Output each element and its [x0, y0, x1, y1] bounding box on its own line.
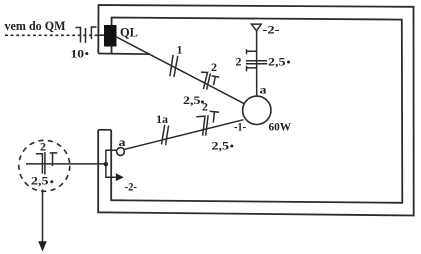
- svg-text:2,5: 2,5: [183, 93, 201, 107]
- lamp 60W: [243, 96, 271, 124]
- conductor ticks group on vertical wire (2x return, phase, neutral): [246, 49, 267, 71]
- svg-text:vem do QM: vem do QM: [5, 19, 66, 33]
- svg-text:2: 2: [40, 140, 46, 154]
- conduit junction to switch: [106, 150, 117, 164]
- svg-text:2: 2: [236, 55, 242, 69]
- wall end cap at QL side (extends to circuit line): [98, 53, 150, 56]
- arrow wire down to other circuit: [42, 190, 44, 244]
- wire feed dashed from QM: [5, 34, 97, 36]
- switch a: [117, 148, 125, 156]
- svg-text:-2-: -2-: [263, 23, 280, 37]
- svg-text:1a: 1a: [156, 112, 168, 126]
- svg-text:a: a: [119, 135, 126, 149]
- svg-text:-2-: -2-: [125, 180, 138, 194]
- wire lamp to sconce point (vertical): [256, 31, 258, 96]
- svg-text:2,5: 2,5: [212, 139, 230, 153]
- svg-text:2: 2: [211, 60, 217, 74]
- wire feed from external point: [26, 163, 106, 165]
- sconce outlet triangle: [251, 24, 261, 31]
- feed stub into QL: [97, 34, 105, 36]
- wall end cap lower door side: [98, 129, 111, 131]
- wall inner: [111, 18, 402, 203]
- svg-text:2,5: 2,5: [31, 174, 49, 188]
- wall outer: [98, 5, 414, 216]
- conduit junction to circuit 2 arrow: [106, 164, 116, 177]
- conductor ticks group 2 lower (neutral, phase, return): [196, 111, 219, 135]
- conductor ticks group 1a (two slashes): [162, 125, 169, 146]
- conductor ticks group in dashed circle (neutral, phase, return): [36, 152, 58, 174]
- conductor ticks group 1 (two slashes): [170, 55, 178, 77]
- svg-text:a: a: [260, 83, 267, 97]
- wire QL to lamp: [117, 37, 245, 104]
- arrowhead down: [38, 241, 47, 251]
- svg-text:2: 2: [202, 100, 208, 114]
- svg-text:1: 1: [177, 43, 183, 57]
- QL panel (quadro de luz): [104, 25, 117, 47]
- arrow to circuit 2: [116, 173, 124, 181]
- external connection dashed circle: [19, 140, 70, 191]
- svg-text:2,5: 2,5: [268, 55, 286, 69]
- svg-text:QL: QL: [120, 25, 138, 40]
- junction dot: [104, 162, 108, 166]
- svg-text:60W: 60W: [269, 120, 292, 134]
- conductor ticks group 2 upper (neutral, phase, return): [201, 72, 219, 90]
- wire switch to lamp: [124, 120, 244, 150]
- svg-text:10: 10: [71, 46, 85, 60]
- conductor ticks feed group (neutral, phase, return): [76, 27, 97, 43]
